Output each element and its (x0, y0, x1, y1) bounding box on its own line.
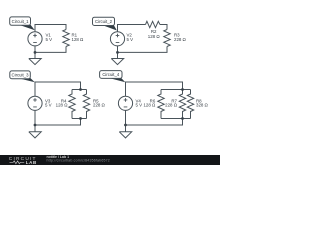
svg-text:128 Ω: 128 Ω (148, 34, 161, 39)
svg-text:5 V: 5 V (45, 103, 52, 108)
svg-text:LAB: LAB (26, 160, 37, 165)
svg-text:128 Ω: 128 Ω (56, 103, 69, 108)
svg-text:128 Ω: 128 Ω (72, 37, 85, 42)
svg-text:http://circuitlab.com/c/84356f: http://circuitlab.com/c/84356fab6572 (47, 158, 110, 162)
svg-text:228 Ω: 228 Ω (93, 103, 106, 108)
svg-text:Circuit_2: Circuit_2 (95, 19, 113, 24)
svg-text:Circuit_4: Circuit_4 (102, 72, 120, 77)
svg-text:5 V: 5 V (136, 103, 143, 108)
svg-text:328 Ω: 328 Ω (196, 103, 209, 108)
svg-text:Circuit_3: Circuit_3 (12, 72, 30, 77)
svg-text:Circuit_1: Circuit_1 (12, 19, 30, 24)
svg-text:5 V: 5 V (127, 37, 134, 42)
svg-text:228 Ω: 228 Ω (174, 37, 187, 42)
svg-text:5 V: 5 V (46, 37, 53, 42)
svg-text:128 Ω: 128 Ω (143, 103, 156, 108)
svg-text:228 Ω: 228 Ω (165, 103, 178, 108)
